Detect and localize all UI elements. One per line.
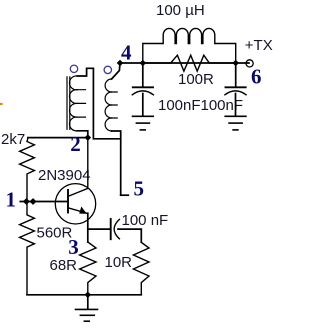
- transistor base bar: [67, 190, 69, 213]
- transformer primary terminal circle: [70, 65, 77, 72]
- svg-text:68R: 68R: [50, 257, 78, 274]
- transformer secondary terminal circle: [104, 66, 111, 73]
- svg-text:1: 1: [6, 188, 17, 212]
- svg-text:2k7: 2k7: [1, 131, 25, 148]
- cap to 10R wire: [118, 229, 141, 242]
- svg-text:100 µH: 100 µH: [156, 2, 205, 19]
- capacitor C1 100nF (left, top-right group): [132, 63, 153, 116]
- capacitor C3 100nF plates: [110, 219, 112, 239]
- transistor emitter lead: [68, 208, 87, 213]
- secondary bottom lead to node 5: [112, 131, 121, 195]
- bottom wire: [27, 294, 141, 296]
- resistor 2k7: [20, 138, 35, 202]
- junction dot node1 b: [29, 198, 36, 205]
- node 2 wire: [28, 137, 88, 139]
- junction dot L/C tap: [140, 60, 147, 67]
- stray orange tick at left edge: [0, 103, 2, 105]
- svg-text:100nF: 100nF: [201, 97, 244, 114]
- transistor Q1 2N3904 circle: [55, 184, 95, 224]
- resistor 68R: [80, 242, 96, 295]
- primary top lead (step to node5 net): [77, 68, 121, 139]
- emitter wire down: [87, 213, 89, 242]
- svg-text:100R: 100R: [178, 71, 214, 88]
- svg-text:2N3904: 2N3904: [38, 167, 91, 184]
- svg-text:100 nF: 100 nF: [122, 212, 169, 229]
- node 3 wire to cap: [88, 228, 110, 230]
- svg-text:560R: 560R: [37, 225, 73, 242]
- transformer T1 core: [67, 77, 70, 129]
- emitter arrow: [79, 207, 87, 214]
- transformer secondary winding (right): [105, 79, 117, 131]
- transformer primary winding (left): [69, 76, 85, 131]
- transistor collector lead: [68, 138, 88, 197]
- terminal circle +TX: [246, 60, 253, 67]
- junction dot C2 tap: [232, 60, 239, 67]
- junction dot node1 a: [23, 198, 30, 205]
- ground bottom: [87, 295, 89, 309]
- svg-text:6: 6: [251, 65, 262, 89]
- svg-text:4: 4: [121, 41, 132, 65]
- svg-text:+TX: +TX: [245, 37, 273, 54]
- inductor L1 100uH: [143, 28, 236, 63]
- svg-text:100nF: 100nF: [158, 97, 201, 114]
- ground under C2: [225, 116, 246, 130]
- junction dot node4-left: [117, 60, 124, 67]
- capacitor C2 100nF (right, top-right group): [225, 63, 246, 116]
- resistor 100R (top): [143, 55, 236, 71]
- resistor 560R: [20, 202, 35, 295]
- ground under C1: [133, 116, 154, 130]
- junction dot node 2: [85, 134, 92, 141]
- resistor 10R: [133, 242, 149, 294]
- svg-text:2: 2: [70, 132, 81, 156]
- node 1 wire to base: [20, 201, 67, 203]
- svg-text:10R: 10R: [105, 254, 133, 271]
- svg-text:5: 5: [134, 177, 145, 201]
- node 4 wire: [120, 62, 249, 64]
- junction dot bottom: [85, 292, 92, 299]
- primary bottom lead to node 2: [77, 131, 88, 138]
- secondary top lead to node 4: [112, 63, 120, 79]
- node 5 stub: [121, 194, 129, 196]
- svg-text:3: 3: [68, 235, 79, 259]
